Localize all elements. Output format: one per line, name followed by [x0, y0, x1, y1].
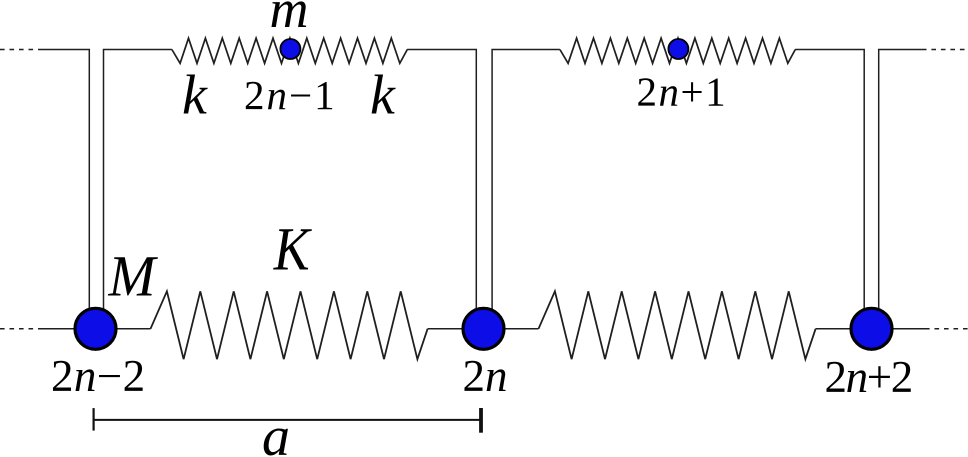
svg-text:k: k	[182, 65, 208, 127]
svg-text:2n−1: 2n−1	[244, 72, 337, 118]
svg-text:k: k	[370, 65, 396, 127]
svg-text:K: K	[273, 216, 312, 283]
svg-text:a: a	[262, 406, 290, 457]
svg-text:m: m	[270, 0, 309, 39]
svg-text:2n: 2n	[463, 351, 508, 401]
svg-text:2n−2: 2n−2	[51, 351, 146, 401]
svg-text:2n+2: 2n+2	[825, 352, 912, 402]
svg-text:M: M	[108, 245, 159, 309]
svg-text:2n+1: 2n+1	[637, 69, 728, 115]
